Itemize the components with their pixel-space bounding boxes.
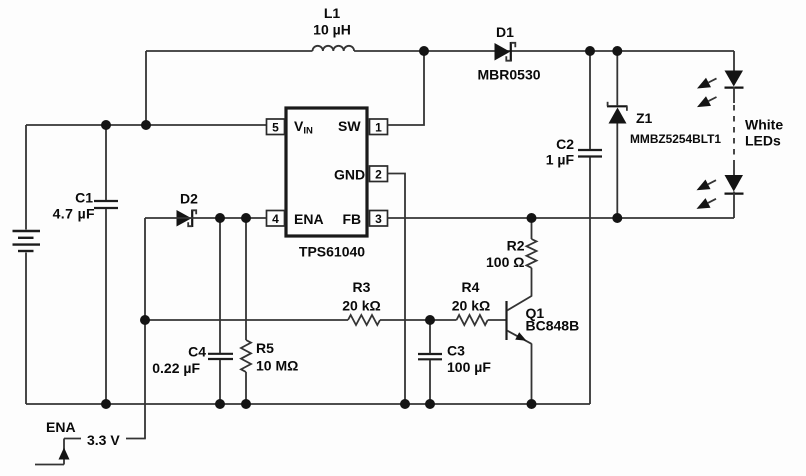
capacitor C1 <box>94 201 118 208</box>
wire top rail left segment <box>146 50 313 52</box>
wire bottom ground rail <box>26 403 590 405</box>
capacitor C3 <box>418 354 442 359</box>
svg-text:BC848B: BC848B <box>526 318 580 334</box>
svg-text:D2: D2 <box>180 191 198 207</box>
svg-text:4.7 µF: 4.7 µF <box>53 206 95 222</box>
wire ENA input bottom <box>35 464 64 466</box>
node Z1-FB line <box>612 213 622 223</box>
svg-text:SW: SW <box>338 118 361 134</box>
wire R2 top lead <box>531 218 533 239</box>
wire LED branch top <box>733 51 735 71</box>
node R2-FB line <box>527 213 537 223</box>
wire R5 bottom lead <box>245 372 247 404</box>
wire C1 bottom lead <box>105 209 107 404</box>
wire LED2 top stub <box>733 162 735 175</box>
svg-text:C2: C2 <box>556 136 574 152</box>
LED DL2 <box>725 175 744 194</box>
wire C1 top lead <box>105 125 107 200</box>
svg-text:MMBZ5254BLT1: MMBZ5254BLT1 <box>630 134 722 146</box>
transistor Q1 <box>507 296 532 344</box>
node R5-gnd <box>241 399 251 409</box>
svg-text:R3: R3 <box>353 279 371 295</box>
node SW-top rail <box>419 46 429 56</box>
node Q1 emitter-gnd <box>527 399 537 409</box>
wire C2 bottom lead <box>589 158 591 405</box>
svg-text:TPS61040: TPS61040 <box>299 244 365 260</box>
svg-text:5: 5 <box>272 121 279 135</box>
node C4-ENA line <box>215 213 225 223</box>
pin 5 box <box>267 119 285 135</box>
resistor R5 <box>241 340 251 372</box>
node C2-top rail <box>585 46 595 56</box>
resistor R3 <box>348 315 380 325</box>
wire battery top lead <box>25 125 27 230</box>
wire GND to ground rail <box>388 174 406 405</box>
pin 1 box <box>370 119 388 135</box>
wire R3 line <box>145 319 348 321</box>
wire 3.3V right segment <box>126 438 146 440</box>
zener Z1 <box>607 102 628 124</box>
wire D2 line <box>145 217 267 219</box>
wire dashed LED continuation <box>733 105 735 162</box>
wire ENA input stem <box>63 439 65 465</box>
svg-text:L1: L1 <box>324 5 341 21</box>
svg-text:ENA: ENA <box>294 211 324 227</box>
svg-text:GND: GND <box>334 167 365 183</box>
LED DL1 emission arrow 1 <box>697 78 717 89</box>
node C1-VIN <box>101 120 111 130</box>
wire ENA vertical <box>144 218 146 439</box>
node ENA-R3 <box>140 315 150 325</box>
svg-text:R4: R4 <box>462 279 480 295</box>
svg-text:ENA: ENA <box>46 419 76 435</box>
wire FB line <box>388 217 735 219</box>
svg-text:C3: C3 <box>447 343 465 359</box>
svg-text:100 µF: 100 µF <box>447 359 491 375</box>
svg-text:FB: FB <box>343 211 362 227</box>
svg-text:C4: C4 <box>188 344 206 360</box>
node R5-ENA line <box>241 213 251 223</box>
diode D2 <box>177 210 197 228</box>
svg-text:1: 1 <box>375 121 382 135</box>
pin 2 box <box>370 166 388 182</box>
svg-text:4: 4 <box>272 212 279 226</box>
wire Q1 emitter to ground rail <box>531 344 533 405</box>
battery V1 <box>13 231 41 251</box>
resistor R4 <box>457 315 488 325</box>
wire C4 top lead <box>219 218 221 353</box>
node GND pin-gnd rail <box>400 399 410 409</box>
diode D1 <box>495 42 516 62</box>
node L1-VIN riser <box>141 120 151 130</box>
node C1-gnd <box>101 399 111 409</box>
wire Z1 bottom lead <box>616 124 618 219</box>
LED DL1 emission arrow 2 <box>697 96 717 107</box>
pin 3 box <box>370 211 388 227</box>
wire 3.3V left segment <box>64 438 81 440</box>
capacitor C4 <box>208 354 233 359</box>
svg-text:3.3 V: 3.3 V <box>87 432 120 448</box>
wire LED2 bottom lead <box>733 192 735 219</box>
node Z1-top rail <box>612 46 622 56</box>
capacitor C2 <box>578 150 602 157</box>
wire VIN riser <box>145 51 147 125</box>
svg-text:10 MΩ: 10 MΩ <box>256 358 298 374</box>
wire R5 top lead <box>245 218 247 340</box>
wire C3 bottom lead <box>429 360 431 404</box>
wire R4 to Q1 base <box>488 319 507 321</box>
svg-text:20 kΩ: 20 kΩ <box>452 298 490 314</box>
svg-text:2: 2 <box>375 168 382 182</box>
svg-text:White: White <box>745 117 783 133</box>
svg-text:R2: R2 <box>507 238 525 254</box>
node C3-R4 <box>425 315 435 325</box>
wire VIN rail <box>26 124 267 126</box>
wire battery bottom lead <box>25 253 27 405</box>
IC U1 TPS61040 body <box>286 108 367 236</box>
wire C3 top lead <box>429 320 431 353</box>
svg-text:0.22 µF: 0.22 µF <box>152 360 200 376</box>
wire R3 to R4 <box>380 319 457 321</box>
svg-text:1 µF: 1 µF <box>546 152 575 168</box>
wire C4 bottom lead <box>219 360 221 404</box>
wire C2 top lead <box>589 51 591 149</box>
svg-text:3: 3 <box>375 212 382 226</box>
svg-text:C1: C1 <box>75 190 93 206</box>
svg-text:100 Ω: 100 Ω <box>486 254 524 270</box>
svg-text:20 kΩ: 20 kΩ <box>342 298 380 314</box>
node C4-gnd <box>215 399 225 409</box>
svg-text:LEDs: LEDs <box>745 133 781 149</box>
LED DL1 <box>725 71 744 88</box>
svg-text:D1: D1 <box>496 24 514 40</box>
LED DL2 emission arrow 2 <box>697 198 717 209</box>
svg-text:Z1: Z1 <box>636 110 653 126</box>
ENA input arrow <box>59 448 70 460</box>
node C3-gnd <box>425 399 435 409</box>
svg-text:MBR0530: MBR0530 <box>477 67 540 83</box>
inductor L1 <box>313 46 355 51</box>
wire Z1 top lead <box>616 51 618 106</box>
wire LED mid stub <box>733 87 735 104</box>
wire SW to top rail <box>388 51 425 125</box>
svg-text:R5: R5 <box>256 340 274 356</box>
svg-text:10 µH: 10 µH <box>313 22 351 38</box>
wire top rail right segment <box>354 50 734 52</box>
resistor R2 <box>527 239 537 268</box>
pin 4 box <box>267 211 285 227</box>
wire R2 bottom lead <box>531 268 533 297</box>
LED DL2 emission arrow 1 <box>697 180 717 191</box>
